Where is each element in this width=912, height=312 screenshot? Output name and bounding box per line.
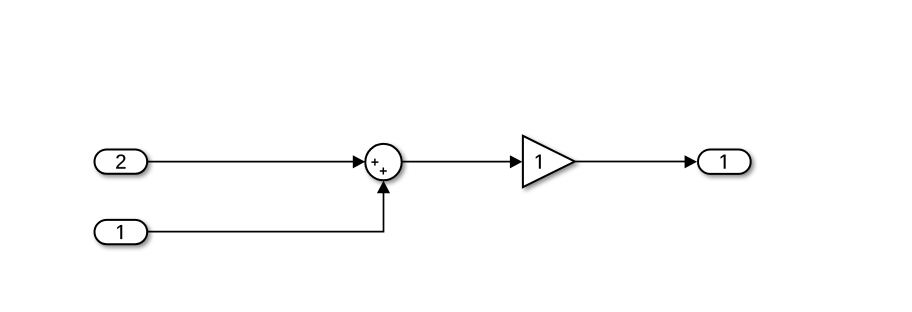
- sum block: [365, 144, 401, 180]
- wire W4: Gain to Outport: [574, 161, 689, 163]
- inport block 2: [95, 150, 148, 174]
- gain value label 1: [536, 155, 541, 169]
- inport block 1: [95, 220, 148, 244]
- outport block 1: [698, 150, 751, 174]
- gain block: [523, 136, 575, 187]
- wire W2: Inport 1 to Sum bottom: [148, 186, 384, 232]
- sum plus sign (left input): [371, 159, 378, 166]
- wire W3: Sum to Gain: [402, 161, 515, 163]
- outport 1 label: [721, 155, 726, 169]
- arrowhead into Sum left: [353, 155, 365, 168]
- arrowhead into Sum bottom: [377, 181, 390, 194]
- sum plus sign (bottom input): [380, 168, 387, 175]
- arrowhead into Gain: [510, 155, 522, 168]
- wire W1: Inport 2 to Sum: [148, 161, 357, 163]
- arrowhead into Outport: [685, 155, 697, 168]
- inport 2 label: [116, 154, 125, 168]
- inport 1 label: [117, 225, 122, 239]
